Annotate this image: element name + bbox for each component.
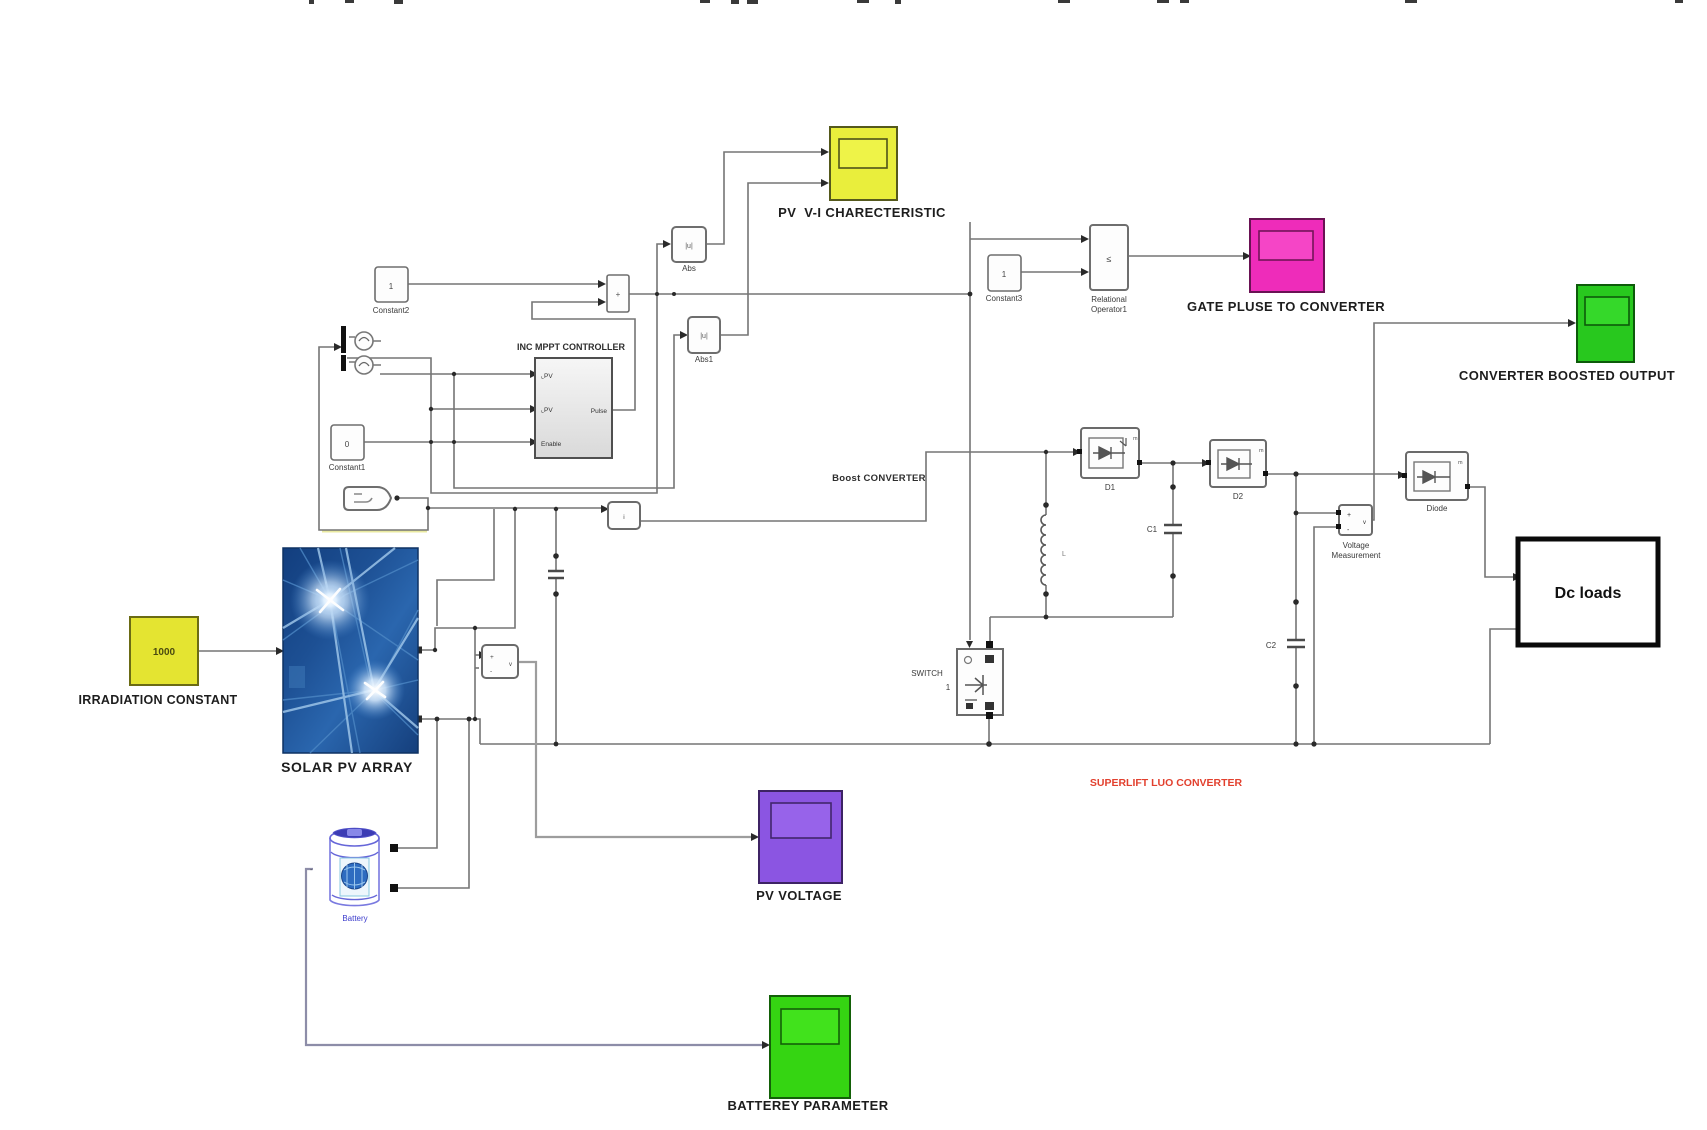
svg-text:0: 0 xyxy=(345,440,350,449)
wire battery plus riser xyxy=(394,719,437,848)
solar pv array image block xyxy=(283,548,418,753)
svg-text:D2: D2 xyxy=(1233,492,1244,501)
mosfet block SWITCH xyxy=(957,641,1003,719)
svg-text:m: m xyxy=(1458,460,1463,466)
scope PV VOLTAGE xyxy=(759,791,842,883)
svg-text:Dc loads: Dc loads xyxy=(1555,585,1622,602)
svg-text:Battery: Battery xyxy=(342,914,367,923)
toolbar crop fragments at top xyxy=(309,0,1683,4)
wire pv voltage meas to purple scope xyxy=(518,662,751,837)
svg-text:1000: 1000 xyxy=(153,647,176,658)
svg-text:Abs1: Abs1 xyxy=(695,355,714,364)
wire MPPT pulse loop to compare xyxy=(532,302,635,410)
scope PV V-I CHARECTERISTIC xyxy=(830,127,897,200)
current sensor bottom xyxy=(341,355,381,374)
mosfet block D1 xyxy=(1077,428,1142,478)
block Constant3 xyxy=(988,255,1021,291)
svg-text:1: 1 xyxy=(389,282,394,291)
wire compare out pwm trunk xyxy=(629,222,970,640)
wire highlight yellow xyxy=(322,530,427,533)
wire Dc loads bottom to ground bus xyxy=(1490,629,1516,744)
scope GATE PLUSE TO CONVERTER xyxy=(1250,219,1324,292)
svg-text:Abs: Abs xyxy=(682,264,696,273)
wire ground bus xyxy=(480,743,1490,745)
wire Abs1 out to scope in2 xyxy=(720,183,821,335)
wire battery minus to battery scope xyxy=(306,869,762,1045)
svg-text:C1: C1 xyxy=(1147,525,1158,534)
block IRRADIATION CONSTANT 1000 xyxy=(130,617,198,685)
block current measurement small xyxy=(608,502,640,529)
wire input capacitor column xyxy=(555,509,557,744)
wire C1 branch xyxy=(1172,463,1174,617)
wire node to current sensor block xyxy=(428,507,601,509)
svg-text:IRRADIATION CONSTANT: IRRADIATION CONSTANT xyxy=(79,693,238,707)
wire pv vm tap xyxy=(474,628,476,719)
subsystem MPPT controller xyxy=(535,358,612,458)
svg-text:Operator1: Operator1 xyxy=(1091,305,1128,314)
svg-text:+: + xyxy=(1347,512,1351,519)
voltage sensor top xyxy=(341,326,381,353)
svg-text:L: L xyxy=(1062,551,1066,558)
svg-text:1: 1 xyxy=(946,683,951,692)
svg-text:C2: C2 xyxy=(1266,641,1277,650)
svg-text:D1: D1 xyxy=(1105,483,1116,492)
svg-text:Boost CONVERTER: Boost CONVERTER xyxy=(832,473,926,484)
wire Vmeas minus to bus xyxy=(1314,527,1339,744)
inductor L coil xyxy=(1041,515,1046,585)
scope CONVERTER BOOSTED OUTPUT xyxy=(1577,285,1634,362)
capacitor C2 plates xyxy=(1287,640,1305,647)
block relational operator xyxy=(1090,225,1128,290)
svg-text:Constant1: Constant1 xyxy=(329,463,366,472)
logic gate block xyxy=(344,487,391,510)
block compare xyxy=(607,275,629,312)
svg-text:m: m xyxy=(1133,436,1138,442)
svg-text:Measurement: Measurement xyxy=(1332,551,1382,560)
wire sensor1 to MPPT Ipv and abs feedback xyxy=(347,244,663,493)
svg-text:INC MPPT CONTROLLER: INC MPPT CONTROLLER xyxy=(517,342,625,352)
wire Constant1 to MPPT enable xyxy=(364,441,530,443)
block Constant2 xyxy=(375,267,408,302)
wire Abs out to scope in1 xyxy=(706,152,821,244)
svg-text:Constant2: Constant2 xyxy=(373,306,410,315)
diode block Diode xyxy=(1402,452,1470,500)
svg-text:i: i xyxy=(623,514,624,521)
wire Diode out to Dc loads top xyxy=(1468,487,1513,577)
svg-text:|u|: |u| xyxy=(700,333,708,340)
svg-text:Voltage: Voltage xyxy=(1343,541,1370,550)
wire Vmeas out to scope xyxy=(1372,323,1568,520)
wire C2 branch xyxy=(1295,474,1297,744)
arrowheads xyxy=(276,148,1576,1049)
wire pwm to relational in1 xyxy=(970,238,1081,240)
wire battery port2 riser xyxy=(394,719,469,888)
svg-text:CONVERTER BOOSTED OUTPUT: CONVERTER BOOSTED OUTPUT xyxy=(1459,368,1675,383)
capacitor Cin plates xyxy=(548,571,564,578)
svg-text:⌞PV: ⌞PV xyxy=(541,407,553,414)
scope BATTEREY PARAMETER xyxy=(770,996,850,1098)
wire switch source to bus xyxy=(988,715,990,744)
wire PV plus port to boost input node xyxy=(418,509,515,650)
wire switch drain riser xyxy=(989,617,991,645)
svg-text:SWITCH: SWITCH xyxy=(911,669,943,678)
svg-text:Pulse: Pulse xyxy=(591,408,608,415)
svg-text:BATTEREY PARAMETER: BATTEREY PARAMETER xyxy=(727,1098,888,1113)
wire gate loop to sensors xyxy=(319,347,428,530)
wire D2 to Diode xyxy=(1266,473,1398,475)
block Dc loads xyxy=(1518,539,1658,645)
svg-text:|u|: |u| xyxy=(685,243,693,250)
junction dots xyxy=(394,292,1316,747)
svg-text:≤: ≤ xyxy=(1107,254,1112,264)
svg-text:v: v xyxy=(509,662,512,668)
wire inductor column xyxy=(1045,452,1047,617)
block Constant1 xyxy=(331,425,364,460)
svg-text:+: + xyxy=(490,654,494,661)
wire Vmeas plus xyxy=(1296,512,1336,514)
svg-text:+: + xyxy=(616,290,621,299)
capacitor plates xyxy=(548,525,1305,647)
block Abs1 xyxy=(688,317,720,353)
svg-text:m: m xyxy=(1259,448,1264,454)
wire sensor2 to MPPT Vpv and abs1 feedback xyxy=(380,373,530,375)
svg-text:v: v xyxy=(1363,520,1366,526)
svg-text:Relational: Relational xyxy=(1091,295,1127,304)
svg-text:Diode: Diode xyxy=(1427,504,1448,513)
wire irradiation to PV array xyxy=(198,650,276,652)
svg-text:PV V-I CHARECTERISTIC: PV V-I CHARECTERISTIC xyxy=(778,205,946,220)
wire inductor branch bottom rail xyxy=(990,616,1173,618)
svg-text:-: - xyxy=(490,668,492,675)
capacitor C1 plates xyxy=(1164,525,1182,533)
svg-text:GATE PLUSE TO CONVERTER: GATE PLUSE TO CONVERTER xyxy=(1187,299,1385,314)
svg-text:1: 1 xyxy=(1002,270,1007,279)
wire gate feedback vertical xyxy=(437,509,494,626)
svg-text:Constant3: Constant3 xyxy=(986,294,1023,303)
battery block xyxy=(310,828,398,905)
svg-text:PV VOLTAGE: PV VOLTAGE xyxy=(756,888,842,903)
block pv voltage measurement small xyxy=(482,645,518,678)
svg-text:SUPERLIFT LUO CONVERTER: SUPERLIFT LUO CONVERTER xyxy=(1090,777,1243,789)
wire D1 to D2 xyxy=(1139,462,1202,464)
block Abs xyxy=(672,227,706,262)
wire PV minus rail xyxy=(420,719,480,744)
wire relational out to magenta scope xyxy=(1128,255,1243,257)
wire Constant2 to compare xyxy=(408,283,598,285)
wire current sensor out to D1 xyxy=(640,452,1073,521)
svg-text:SOLAR PV ARRAY: SOLAR PV ARRAY xyxy=(281,759,413,775)
block voltage measurement xyxy=(1336,505,1372,535)
svg-text:Enable: Enable xyxy=(541,441,562,448)
svg-text:⌞PV: ⌞PV xyxy=(541,373,553,380)
mosfet block D2 xyxy=(1206,440,1268,487)
wire Constant3 to relational in2 xyxy=(1021,271,1081,273)
wire pv vm inputs xyxy=(475,654,479,656)
